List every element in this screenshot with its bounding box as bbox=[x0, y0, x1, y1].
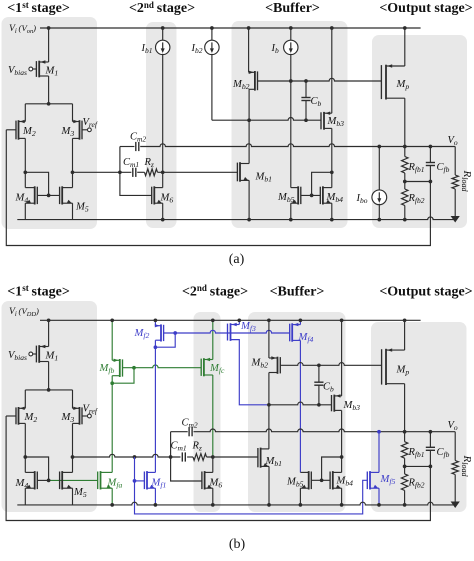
transistor Mb3 (b) bbox=[332, 394, 342, 412]
transistor M5 (b) bbox=[60, 471, 73, 489]
stage title: 1st stage (a) bbox=[7, 0, 70, 16]
node: Ib1 rail junction (a) bbox=[161, 26, 165, 30]
wire: M5 drain (a) bbox=[72, 172, 74, 187]
wire: Mb2 drain down to Mb1 drain (a) bbox=[248, 89, 250, 163]
ground symbol (a) bbox=[451, 216, 460, 223]
wire: M4-M5 gate line (a) bbox=[37, 194, 59, 196]
label Mp (a) bbox=[396, 79, 410, 91]
wire: Mb1 source to rail (a) bbox=[248, 180, 250, 219]
wire: Mb5 source to rail (a) bbox=[290, 203, 292, 219]
wire: Mb2 drain down to Mb1 (b) bbox=[268, 373, 270, 449]
wire: M5 source to rail (b) bbox=[72, 488, 74, 505]
resistor Rfb1 (b) bbox=[401, 432, 407, 467]
wire: Mfb diode loop (b) bbox=[112, 368, 134, 384]
transistor M1 (a) bbox=[36, 60, 48, 77]
label Mf4 (b) bbox=[298, 332, 314, 344]
label M4 (a) bbox=[15, 193, 29, 205]
label Cm2 (b) bbox=[182, 418, 198, 430]
transistor Mf3 (blue) (b) bbox=[228, 323, 240, 341]
label Mb5 (b) bbox=[286, 477, 304, 489]
label Mb1 (a) bbox=[255, 172, 273, 184]
current source Ib2 (a) bbox=[205, 28, 219, 120]
label M2 (b) bbox=[24, 412, 38, 424]
capacitor Cb (b) bbox=[314, 365, 323, 405]
label Cm1 (a) bbox=[123, 157, 139, 169]
wire: Mb5 source to rail (b) bbox=[299, 488, 301, 505]
terminal Vref (a) bbox=[88, 128, 92, 132]
shaded region: buffer (b) bbox=[248, 312, 346, 512]
wire: Mfa drain up to Mfb (b) bbox=[111, 376, 113, 473]
wire: M2 gate lead to feedback (b) bbox=[6, 415, 16, 417]
wire: ground rail (a) bbox=[17, 217, 455, 220]
node: Cb bottom junction (a) bbox=[304, 118, 308, 122]
wire: Cm network vertical (b) bbox=[170, 432, 172, 457]
shaded region: output stage (a) bbox=[372, 35, 467, 228]
transistor M2 (a) bbox=[16, 120, 25, 140]
wire: Mp source from rail (a) bbox=[404, 28, 406, 66]
label M4 (b) bbox=[15, 478, 29, 490]
capacitor Cm1 (b) bbox=[182, 452, 185, 461]
node: Rfb2 bottom rail junction (a) bbox=[403, 218, 407, 222]
wire: M2 source up (a) bbox=[24, 104, 26, 122]
wire: Mb3 gate line (b) bbox=[269, 402, 332, 405]
wire: M3 drain down (a) bbox=[72, 138, 74, 172]
svg-text:<Output stage>: <Output stage> bbox=[379, 1, 472, 16]
label Mf2 (b) bbox=[134, 328, 150, 340]
label Vi(VDD) (b) bbox=[9, 306, 39, 318]
wire: diff-pair top rail (a) bbox=[25, 103, 72, 105]
transistor M6 (a) bbox=[152, 186, 163, 204]
wire: M4-M5 gate line (b) bbox=[37, 479, 48, 481]
wire: Mb4 source to rail (a) bbox=[331, 203, 333, 219]
wire: M1 drain from rail (a) bbox=[48, 28, 50, 62]
wire: Mfc drain down to M6 (b) bbox=[212, 375, 214, 472]
shaded region: buffer (a) bbox=[232, 21, 348, 228]
node: Mf5 source rail junction (b) bbox=[377, 503, 381, 507]
stage title: 2nd stage (b) bbox=[182, 283, 248, 299]
label Vo (b) bbox=[448, 420, 458, 432]
wire: Mp drain to Vo (a) bbox=[404, 98, 406, 146]
wire: Mf5 drain up to Vo (b) bbox=[378, 432, 380, 473]
node: Cb top junction (b) bbox=[317, 363, 321, 367]
label Rfb2 (a) bbox=[408, 193, 425, 205]
label Ib2 (a) bbox=[191, 43, 203, 55]
label Mb4 (a) bbox=[326, 192, 344, 204]
label Mb4 (b) bbox=[336, 476, 354, 488]
label M3 (a) bbox=[61, 126, 75, 138]
wire: blue mirror gate line to Mf3 and Mf4 (b) bbox=[175, 330, 290, 333]
label Mb2 (a) bbox=[232, 79, 250, 91]
transistor M4 (a) bbox=[25, 186, 37, 204]
wire: mirror connection left output to gates (a) bbox=[25, 172, 48, 195]
label Cm2 (a) bbox=[130, 132, 146, 144]
label M5 (b) bbox=[73, 487, 87, 499]
node: divider tap right (a) bbox=[429, 180, 433, 184]
node: Mb2 drain junction (a) bbox=[247, 118, 251, 122]
wire: first-stage output to Mb1 gate with Cm1/Rz (b) bbox=[73, 454, 258, 457]
terminal Vref (b) bbox=[88, 414, 92, 418]
label M6 (a) bbox=[160, 193, 174, 205]
node: Mb4 source rail junction (b) bbox=[340, 503, 344, 507]
wire: Mb2 source from rail (a) bbox=[248, 28, 250, 72]
node: Mb5 source rail junction (b) bbox=[299, 503, 303, 507]
ground symbol (b) bbox=[451, 502, 460, 509]
wire: Mf4 drain down to Mb5 (b) bbox=[299, 340, 301, 472]
node: Vi junction (a) bbox=[47, 26, 51, 30]
wire: mirror connection to gates (b) bbox=[25, 457, 48, 480]
wire: ground rail (b) bbox=[17, 502, 455, 505]
transistor M6 (b) bbox=[202, 471, 213, 489]
svg-text:<Buffer>: <Buffer> bbox=[270, 285, 325, 300]
label Mb3 (a) bbox=[327, 116, 345, 128]
wire: Mf3 source from rail (b) bbox=[238, 320, 240, 324]
wire: Vo line with Cm2 (b) bbox=[171, 429, 456, 432]
label Rfb2 (b) bbox=[408, 478, 425, 490]
label Mfa (b) bbox=[107, 478, 123, 490]
label Cfb (a) bbox=[437, 162, 450, 174]
wire: green mirror gate line Mfb to Mfc (b) bbox=[123, 365, 202, 368]
node: mirror gate tee (a) bbox=[310, 194, 314, 198]
node: Ib junction on gate line (a) bbox=[289, 79, 293, 83]
wire: buffer gate line Mb2 to Mp (b) bbox=[280, 363, 381, 366]
shaded region: 2nd stage (a) bbox=[146, 22, 177, 228]
node: Mb1 source rail junction (a) bbox=[247, 218, 251, 222]
shaded region: 1st stage (a) bbox=[2, 17, 98, 229]
stage title: Buffer (b) bbox=[270, 285, 325, 300]
node: Mp rail junction (b) bbox=[403, 318, 407, 322]
wire: Mf3 drain to Mb3 gate node (b) bbox=[231, 340, 269, 405]
node: Mfb gate tee (b) bbox=[132, 366, 136, 370]
transistor Mb1 (b) bbox=[258, 448, 269, 468]
node: diff rail junction (a) bbox=[47, 102, 51, 106]
stage title: Output stage (b) bbox=[379, 285, 472, 300]
transistor Mp (b) bbox=[382, 348, 405, 385]
node: Mb4 diode junction (b) bbox=[340, 455, 344, 459]
wire: M3 source up (b) bbox=[72, 390, 74, 408]
node: Cfb top junction (b) bbox=[429, 430, 433, 434]
label Mfb (b) bbox=[99, 363, 115, 375]
node: divider tap left (b) bbox=[403, 465, 407, 469]
node: Cfb top junction (a) bbox=[429, 145, 433, 149]
svg-text:<Buffer>: <Buffer> bbox=[265, 1, 320, 16]
wire: Mb4 diode loop (b) bbox=[322, 457, 342, 480]
label Cm1 (b) bbox=[171, 441, 187, 453]
wire: M4 source to rail (a) bbox=[24, 203, 26, 219]
label Rload (a) bbox=[460, 170, 473, 193]
wire: Mb3 source from rail (b) bbox=[341, 320, 343, 396]
stage title: Output stage (a) bbox=[379, 1, 472, 16]
svg-text:<2nd stage>: <2nd stage> bbox=[129, 0, 195, 16]
resistor Rfb2 (a) bbox=[402, 182, 408, 220]
current source Ib (a) bbox=[284, 28, 298, 188]
terminal Vbias (a) bbox=[29, 67, 33, 71]
transistor Mf2 (blue) (b) bbox=[155, 324, 164, 342]
node: Rfb2 bottom rail junction (b) bbox=[403, 503, 407, 507]
transistor M3 (a) bbox=[73, 120, 83, 140]
node: Mp drain Vo junction (a) bbox=[403, 145, 407, 149]
resistor Rload (a) bbox=[452, 147, 458, 217]
node: Mp drain Vo junction (b) bbox=[403, 430, 407, 434]
label Mb5 (a) bbox=[277, 192, 295, 204]
label Mb2 (b) bbox=[251, 358, 269, 370]
node: Mf1 source rail junction (b) bbox=[154, 503, 158, 507]
wire: top rail Vi (a) bbox=[40, 27, 421, 29]
node: Cm network tap (a) bbox=[118, 170, 122, 174]
wire: divider mid node (a) bbox=[405, 181, 431, 183]
wire: Mfc source from rail (b) bbox=[212, 320, 214, 359]
wire: Mf1 gate lead (b) bbox=[135, 480, 145, 482]
capacitor Cm2 (b) bbox=[189, 427, 192, 436]
node: mirror gate tee (b) bbox=[320, 478, 324, 482]
wire: Mb5-Mb4 gate line (b) bbox=[311, 479, 330, 481]
wire: M2 source up (b) bbox=[24, 390, 26, 408]
transistor Mf4 (blue) (b) bbox=[290, 323, 301, 342]
stage title: 2nd stage (a) bbox=[129, 0, 195, 16]
label M6 (b) bbox=[209, 478, 223, 490]
wire: Mf5 gate to blue feedback line (b) bbox=[135, 480, 368, 514]
wire: M6 source to rail (b) bbox=[212, 488, 214, 505]
node: Mfb rail junction (b) bbox=[110, 318, 114, 322]
node: Mb2 rail junction (a) bbox=[247, 26, 251, 30]
node: left diff output (a) bbox=[23, 170, 27, 174]
node: Mf1 gate tee (b) bbox=[133, 479, 137, 483]
node: Ibo bottom rail junction (a) bbox=[377, 218, 381, 222]
label M3 (b) bbox=[61, 412, 75, 424]
label Mf5 (b) bbox=[380, 474, 396, 486]
transistor M1 (b) bbox=[36, 345, 48, 363]
wire: gate line extension to Mfa (green) (b) bbox=[49, 479, 98, 481]
label Rz (b) bbox=[192, 441, 202, 453]
node: diff rail junction (b) bbox=[47, 388, 51, 392]
transistor Mb4 (a) bbox=[320, 186, 332, 204]
label Vi(Von) (a) bbox=[9, 23, 36, 35]
transistor Mp (a) bbox=[381, 64, 404, 99]
wire: M1 gate lead (a) bbox=[33, 68, 37, 70]
wire: Mf4 source from rail (b) bbox=[299, 320, 301, 324]
node: right diff output / first-stage output (a) bbox=[71, 170, 75, 174]
node: M6 source rail junction (b) bbox=[211, 503, 215, 507]
svg-text:(a): (a) bbox=[229, 252, 245, 267]
node: Cb bottom junction (b) bbox=[317, 403, 321, 407]
capacitor Cb (a) bbox=[301, 81, 310, 120]
wire: buffer gate line Mb2 to Mp (a) bbox=[258, 78, 382, 81]
wire: M3 source up (a) bbox=[72, 104, 74, 122]
node: Mb1 source rail junction (b) bbox=[267, 503, 271, 507]
node: Mb3 rail junction (b) bbox=[340, 318, 344, 322]
wire: M4 drain (b) bbox=[24, 457, 26, 472]
node: Mfc rail junction (b) bbox=[211, 318, 215, 322]
wire: Cm2 branch vertical (a) bbox=[119, 147, 121, 173]
transistor Mfa (green) (b) bbox=[98, 471, 113, 489]
label Rz (a) bbox=[144, 157, 154, 169]
svg-text:<Output stage>: <Output stage> bbox=[379, 285, 472, 300]
label Rfb1 (b) bbox=[408, 447, 425, 459]
wire: Mp source from rail (b) bbox=[404, 320, 406, 350]
node: Mf2 drain tee (b) bbox=[154, 345, 158, 349]
svg-text:<1st stage>: <1st stage> bbox=[7, 283, 70, 299]
wire: Mf2 source from rail (b) bbox=[154, 320, 156, 325]
node: Mf2 rail junction (b) bbox=[154, 318, 158, 322]
node: Mp rail junction (a) bbox=[403, 26, 407, 30]
label Vbias (a) bbox=[8, 65, 27, 77]
transistor Mb3 (a) bbox=[321, 112, 332, 130]
transistor Mfc (green) (b) bbox=[201, 358, 213, 377]
resistor Rload (b) bbox=[452, 432, 458, 502]
svg-text:<2nd stage>: <2nd stage> bbox=[182, 283, 248, 299]
node: Mb3 gate node at Mb2 drain (b) bbox=[267, 403, 271, 407]
transistor Mf1 (blue) (b) bbox=[144, 471, 155, 489]
transistor M4 (b) bbox=[25, 471, 37, 489]
wire: M3 gate lead (a) bbox=[82, 129, 88, 131]
node: Cm network tap (b) bbox=[169, 455, 173, 459]
wire: M4 source to rail (b) bbox=[24, 488, 26, 505]
node: Mf5 drain Vo junction (b) bbox=[377, 430, 381, 434]
node: Mfb diode drain junction (b) bbox=[110, 381, 114, 385]
transistor Mb4 (b) bbox=[330, 471, 342, 489]
node: Cb top junction (a) bbox=[304, 79, 308, 83]
node: divider tap left (a) bbox=[403, 180, 407, 184]
capacitor Cm2 (a) bbox=[136, 142, 139, 151]
caption (a) bbox=[229, 252, 245, 267]
wire: Mb3 drain down to Mb4 (b) bbox=[341, 410, 343, 472]
label M1 (a) bbox=[45, 66, 59, 78]
node: Mb5 source rail junction (a) bbox=[289, 218, 293, 222]
wire: M1 drain from rail (b) bbox=[48, 320, 50, 346]
wire: M3 drain down (b) bbox=[72, 423, 74, 457]
capacitor Cfb (a) bbox=[426, 147, 435, 182]
wire: Mf5 source to rail (b) bbox=[378, 488, 380, 505]
wire: M5 source to rail (a) bbox=[72, 203, 74, 219]
label Vo (a) bbox=[448, 135, 458, 147]
wire: Mf1 gate up to first-stage output (b) bbox=[134, 457, 136, 481]
wire: tap down to M6 gate (a) bbox=[120, 172, 152, 195]
node: left diff output (b) bbox=[23, 455, 27, 459]
node: Vi junction (b) bbox=[47, 318, 51, 322]
wire: Mb4 source to rail (b) bbox=[341, 488, 343, 505]
wire: M1 source down (a) bbox=[48, 76, 50, 104]
node: second-stage output on wire (a) bbox=[161, 170, 165, 174]
stage title: 1st stage (b) bbox=[7, 283, 70, 299]
wire: Ib2 to Mb3 gate (a) bbox=[212, 118, 321, 121]
wire: Vo line with Cm2 (a) bbox=[120, 144, 455, 147]
label Vbias (b) bbox=[8, 350, 27, 362]
transistor Mfb (green) (b) bbox=[112, 359, 122, 377]
node: first-stage output (b) bbox=[71, 455, 75, 459]
label M2 (a) bbox=[22, 126, 36, 138]
label Ib1 (a) bbox=[141, 43, 153, 55]
wire: divider mid node (b) bbox=[405, 465, 431, 467]
wire: first-stage output to Mb1 gate with Cm1/Rz (a) bbox=[73, 171, 238, 173]
terminal Vbias (b) bbox=[29, 352, 33, 356]
label Mf1 (b) bbox=[151, 478, 167, 490]
label Cb (a) bbox=[311, 96, 322, 108]
node: Mb4 diode junction (a) bbox=[330, 170, 334, 174]
label Mfc (b) bbox=[209, 363, 225, 375]
wire: Mp drain to Vo (b) bbox=[404, 384, 406, 432]
node: Mf2 gate tee (b) bbox=[173, 331, 177, 335]
resistor Rfb2 (b) bbox=[401, 466, 407, 505]
node: Ib rail junction (a) bbox=[289, 26, 293, 30]
node: second-stage output (b) bbox=[211, 455, 215, 459]
node: Mf4 rail junction (b) bbox=[299, 318, 303, 322]
label Vref (b) bbox=[83, 404, 98, 416]
resistor Rfb1 (a) bbox=[402, 147, 408, 182]
node: mirror gate junction (a) bbox=[47, 194, 51, 198]
wire: M1 gate lead (b) bbox=[33, 353, 37, 355]
svg-text:(b): (b) bbox=[229, 537, 246, 552]
wire: feedback to M2 gate (b) bbox=[6, 416, 430, 521]
wire: Mb5-Mb4 gate line (a) bbox=[301, 194, 321, 196]
transistor M2 (b) bbox=[16, 407, 25, 425]
label Ib (a) bbox=[271, 43, 280, 55]
wire: feedback to M2 gate (a) bbox=[6, 130, 430, 246]
node: mirror gate junction (b) bbox=[47, 479, 51, 483]
transistor Mb5 (a) bbox=[291, 186, 301, 204]
transistor Mb2 (a) bbox=[249, 71, 258, 91]
wire: M2 drain down (a) bbox=[24, 138, 26, 172]
wire: M2 gate lead to feedback (a) bbox=[6, 129, 16, 131]
label M5 (a) bbox=[75, 202, 89, 214]
label Rfb1 (a) bbox=[408, 162, 425, 174]
label Vref (a) bbox=[83, 117, 98, 129]
current source Ib1 (a) bbox=[156, 28, 170, 188]
current source Ibo (a) bbox=[372, 147, 387, 220]
wire: Mb4 diode loop (a) bbox=[312, 172, 332, 195]
node: Mf1 gate tap (b) bbox=[133, 455, 137, 459]
wire: Mb2 source from rail (b) bbox=[268, 320, 270, 358]
node: Ib2 rail junction (a) bbox=[210, 26, 214, 30]
label Cfb (b) bbox=[437, 447, 450, 459]
node: Mb3 rail junction (a) bbox=[330, 26, 334, 30]
caption (b) bbox=[229, 537, 246, 552]
shaded region: 1st stage (b) bbox=[2, 301, 98, 512]
wire: Mfb source from rail (b) bbox=[111, 320, 113, 360]
node: Mf3 rail junction (b) bbox=[237, 318, 241, 322]
node: Ibo top junction (a) bbox=[377, 145, 381, 149]
svg-text:<1st stage>: <1st stage> bbox=[7, 0, 70, 16]
wire: M3 gate lead (b) bbox=[82, 415, 88, 417]
transistor Mb5 (b) bbox=[300, 471, 311, 489]
wire: M1 source down (b) bbox=[48, 362, 50, 390]
label Mp (b) bbox=[396, 365, 410, 377]
label Mb3 (b) bbox=[343, 400, 361, 412]
wire: top rail Vi (b) bbox=[40, 319, 421, 321]
wire: M4 drain (a) bbox=[24, 172, 26, 187]
capacitor Cfb (b) bbox=[426, 432, 435, 467]
transistor M5 (a) bbox=[60, 186, 73, 204]
wire: M6 source to rail (a) bbox=[162, 203, 164, 219]
wire: Mf2 drain down to Mf1 (b) bbox=[154, 340, 156, 472]
label Mb1 (b) bbox=[265, 456, 283, 468]
node: divider tap right (b) bbox=[429, 465, 433, 469]
label Rload (b) bbox=[460, 455, 473, 478]
wire: M5 drain (b) bbox=[72, 457, 74, 472]
capacitor Cm1 (a) bbox=[133, 168, 136, 177]
wire: Mb3 drain down (a) bbox=[331, 128, 333, 187]
wire: diff-pair top rail (b) bbox=[25, 389, 72, 391]
label Mf3 (b) bbox=[240, 321, 256, 333]
shaded region: 2nd stage (b) bbox=[194, 312, 221, 512]
label Cb (b) bbox=[323, 382, 334, 394]
node: M6 source rail junction (a) bbox=[161, 218, 165, 222]
transistor Mb2 (b) bbox=[269, 356, 280, 374]
wire: M2 drain down (b) bbox=[24, 423, 26, 457]
wire: Mfa source to rail (b) bbox=[111, 488, 113, 505]
shaded region: output stage (b) bbox=[371, 322, 467, 512]
transistor M3 (b) bbox=[73, 407, 83, 425]
resistor Rz (a) bbox=[145, 169, 158, 176]
wire: Mb1 source to rail (b) bbox=[268, 466, 270, 505]
